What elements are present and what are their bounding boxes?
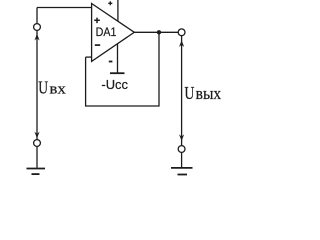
terminal input top (34, 24, 41, 31)
svg-text:вых: вых (196, 84, 222, 103)
arrow Uvx head down (34, 132, 39, 139)
pin label - (inverting input) (95, 44, 100, 46)
op-amp U1 DA1 triangle (92, 4, 135, 62)
ground right (171, 168, 193, 175)
arrow Uvx line (36, 31, 38, 140)
wire output (134, 31, 178, 33)
wire input terminal to ground (36, 146, 38, 167)
terminal output bottom (178, 146, 185, 153)
arrow Uvyx line (181, 36, 183, 146)
svg-text:DA1: DA1 (96, 25, 117, 39)
terminal input bottom (34, 140, 41, 147)
terminal output top (178, 29, 185, 36)
wire input top horizontal (37, 7, 92, 9)
wire output terminal to ground (181, 152, 183, 167)
arrow Uvyx head up (179, 40, 184, 47)
label Uvx (38, 77, 66, 97)
wire inverting input (86, 56, 92, 58)
pin -Ucc power bottom (117, 44, 119, 73)
wire feedback loop (86, 32, 159, 106)
pin label - (negative supply) (109, 61, 113, 63)
svg-text:U: U (38, 77, 48, 97)
label Uvyx (184, 83, 221, 103)
junction node output (157, 30, 161, 34)
pin label + (non-inverting input) (94, 18, 100, 24)
svg-text:U: U (184, 83, 194, 103)
arrow Uvyx head down (179, 134, 184, 141)
arrow Uvx head up (34, 34, 39, 41)
svg-text:-Ucc: -Ucc (101, 78, 128, 92)
wire input vertical to terminal (36, 8, 38, 24)
ground left (27, 169, 46, 175)
-Ucc rail bar (110, 72, 125, 74)
pin +Ucc power top (117, 0, 119, 21)
svg-text:вх: вх (49, 81, 66, 97)
pin label + (positive supply) (108, 1, 112, 5)
